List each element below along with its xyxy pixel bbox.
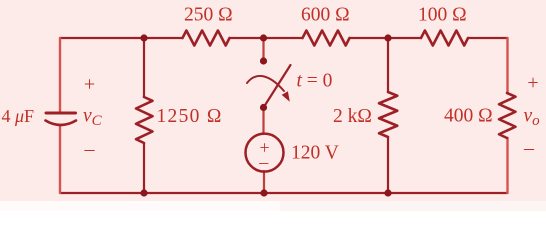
switch actuation arc arrow [247,76,284,91]
svg-text:+: + [527,72,538,94]
junction node top of 1250 ohm [140,34,147,41]
svg-text:250 Ω: 250 Ω [184,5,233,26]
resistor R 400 ohm [499,93,516,138]
switch arrowhead [282,91,290,102]
wire 2 kilohm branch stubs [387,38,389,193]
junction node bottom of source [260,189,267,196]
switch fixed terminal [260,57,267,64]
resistor R 100 ohm [421,31,468,46]
wire 1250 ohm branch stubs [143,38,145,193]
switch moving terminal [260,104,267,111]
junction node top of switch branch [260,34,267,41]
svg-text:400 Ω: 400 Ω [444,105,493,126]
svg-text:4 μF: 4 μF [2,106,35,126]
svg-text:+: + [84,74,95,96]
svg-text:1250 Ω: 1250 Ω [157,106,223,127]
resistor R 2 kilohm [379,92,397,137]
svg-text:100 Ω: 100 Ω [418,5,467,26]
resistor R 250 ohm [183,31,230,46]
voltage source V1 circle [246,134,284,172]
junction node bottom of 2 kilohm [384,189,391,196]
switch blade [264,65,291,108]
wire top rail [60,37,507,39]
wire right edge (400 ohm branch) [506,38,508,193]
svg-text:–: – [84,138,96,160]
wire left edge (capacitor branch) [59,38,61,193]
resistor R 1250 ohm [136,97,153,143]
capacitor C 4 uF curved plate [46,121,77,126]
wire switch/source branch stubs [262,38,265,193]
svg-text:600 Ω: 600 Ω [301,5,350,26]
svg-text:2 kΩ: 2 kΩ [333,106,372,127]
junction node top of 2 kilohm [384,34,391,41]
junction node bottom of 1250 ohm [140,189,147,196]
svg-text:–: – [523,137,535,159]
resistor R 600 ohm [303,31,350,46]
svg-text:–: – [258,152,269,172]
wire bottom rail [60,192,507,194]
svg-text:120 V: 120 V [291,142,339,163]
svg-text:t = 0: t = 0 [297,71,333,92]
capacitor C 4 uF top plate [46,112,76,115]
